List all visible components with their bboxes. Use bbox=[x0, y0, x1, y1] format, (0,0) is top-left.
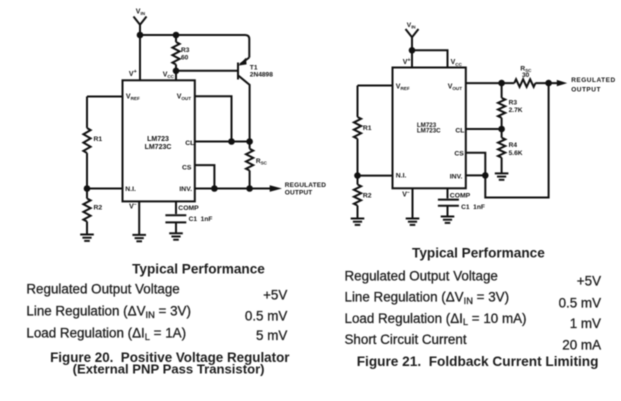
svg-text:R3: R3 bbox=[181, 47, 190, 54]
svg-text:1 mV: 1 mV bbox=[570, 316, 601, 331]
svg-text:R2: R2 bbox=[94, 205, 103, 212]
svg-text:CL: CL bbox=[455, 127, 464, 134]
svg-text:OUTPUT: OUTPUT bbox=[571, 86, 601, 93]
svg-text:Load Regulation (ΔIL = 10 mA): Load Regulation (ΔIL = 10 mA) bbox=[345, 311, 527, 327]
svg-text:V+: V+ bbox=[403, 58, 411, 67]
svg-text:INV.: INV. bbox=[450, 174, 463, 181]
svg-text:REGULATED: REGULATED bbox=[285, 182, 326, 189]
svg-text:+5V: +5V bbox=[577, 273, 601, 288]
svg-text:LM723C: LM723C bbox=[417, 128, 441, 135]
svg-text:R3: R3 bbox=[509, 99, 518, 106]
svg-text:LM723C: LM723C bbox=[145, 144, 172, 151]
svg-text:20 mA: 20 mA bbox=[562, 337, 601, 352]
svg-text:V–: V– bbox=[402, 190, 410, 199]
svg-text:N.I.: N.I. bbox=[125, 186, 136, 193]
svg-text:V–: V– bbox=[129, 202, 137, 211]
svg-text:R2: R2 bbox=[363, 192, 372, 199]
svg-text:Short Circuit Current: Short Circuit Current bbox=[345, 332, 467, 347]
svg-text:VOUT: VOUT bbox=[448, 84, 463, 92]
svg-text:R4: R4 bbox=[509, 142, 518, 149]
svg-text:VOUT: VOUT bbox=[177, 93, 192, 101]
svg-text:R1: R1 bbox=[94, 136, 103, 143]
svg-text:CS: CS bbox=[454, 151, 464, 158]
svg-text:2.7K: 2.7K bbox=[509, 107, 523, 114]
svg-text:VIN: VIN bbox=[136, 8, 146, 16]
svg-text:Typical Performance: Typical Performance bbox=[132, 261, 265, 276]
svg-text:Line Regulation (ΔVIN = 3V): Line Regulation (ΔVIN = 3V) bbox=[345, 290, 510, 306]
svg-text:Regulated Output Voltage: Regulated Output Voltage bbox=[345, 268, 498, 283]
svg-text:COMP: COMP bbox=[450, 192, 471, 199]
svg-text:5 mV: 5 mV bbox=[256, 328, 287, 343]
svg-text:VCC: VCC bbox=[451, 59, 463, 67]
svg-text:0.5 mV: 0.5 mV bbox=[559, 295, 601, 310]
svg-text:VCC: VCC bbox=[163, 72, 175, 80]
svg-text:5.6K: 5.6K bbox=[509, 150, 523, 157]
svg-text:C1 1nF: C1 1nF bbox=[189, 216, 213, 223]
svg-text:RSC: RSC bbox=[256, 158, 268, 166]
svg-text:V+: V+ bbox=[129, 69, 137, 78]
svg-text:R1: R1 bbox=[363, 125, 372, 132]
svg-text:VIN: VIN bbox=[407, 22, 416, 30]
svg-text:C1 1nF: C1 1nF bbox=[461, 204, 485, 211]
svg-text:COMP: COMP bbox=[178, 205, 199, 212]
svg-text:N.I.: N.I. bbox=[396, 172, 407, 179]
svg-text:VREF: VREF bbox=[396, 84, 410, 92]
svg-text:Load Regulation (ΔIL = 1A): Load Regulation (ΔIL = 1A) bbox=[26, 326, 186, 342]
svg-text:(External PNP Pass Transistor): (External PNP Pass Transistor) bbox=[73, 362, 265, 377]
svg-text:Figure 21. Foldback Current L: Figure 21. Foldback Current Limiting bbox=[357, 354, 599, 369]
svg-text:Regulated Output Voltage: Regulated Output Voltage bbox=[26, 282, 179, 297]
svg-text:INV.: INV. bbox=[179, 186, 192, 193]
svg-text:Typical Performance: Typical Performance bbox=[412, 246, 545, 261]
svg-text:Line Regulation (ΔVIN = 3V): Line Regulation (ΔVIN = 3V) bbox=[26, 304, 191, 320]
svg-text:30: 30 bbox=[522, 72, 530, 79]
svg-text:2N4898: 2N4898 bbox=[250, 72, 273, 79]
svg-text:REGULATED: REGULATED bbox=[571, 77, 615, 84]
svg-text:60: 60 bbox=[181, 55, 189, 62]
svg-text:OUTPUT: OUTPUT bbox=[285, 190, 313, 197]
svg-text:T1: T1 bbox=[250, 65, 258, 72]
svg-text:+5V: +5V bbox=[263, 287, 287, 302]
svg-text:VREF: VREF bbox=[126, 93, 140, 101]
svg-text:CL: CL bbox=[185, 140, 194, 147]
svg-text:LM723: LM723 bbox=[147, 136, 169, 143]
svg-text:CS: CS bbox=[182, 164, 192, 171]
svg-text:0.5 mV: 0.5 mV bbox=[245, 309, 287, 324]
